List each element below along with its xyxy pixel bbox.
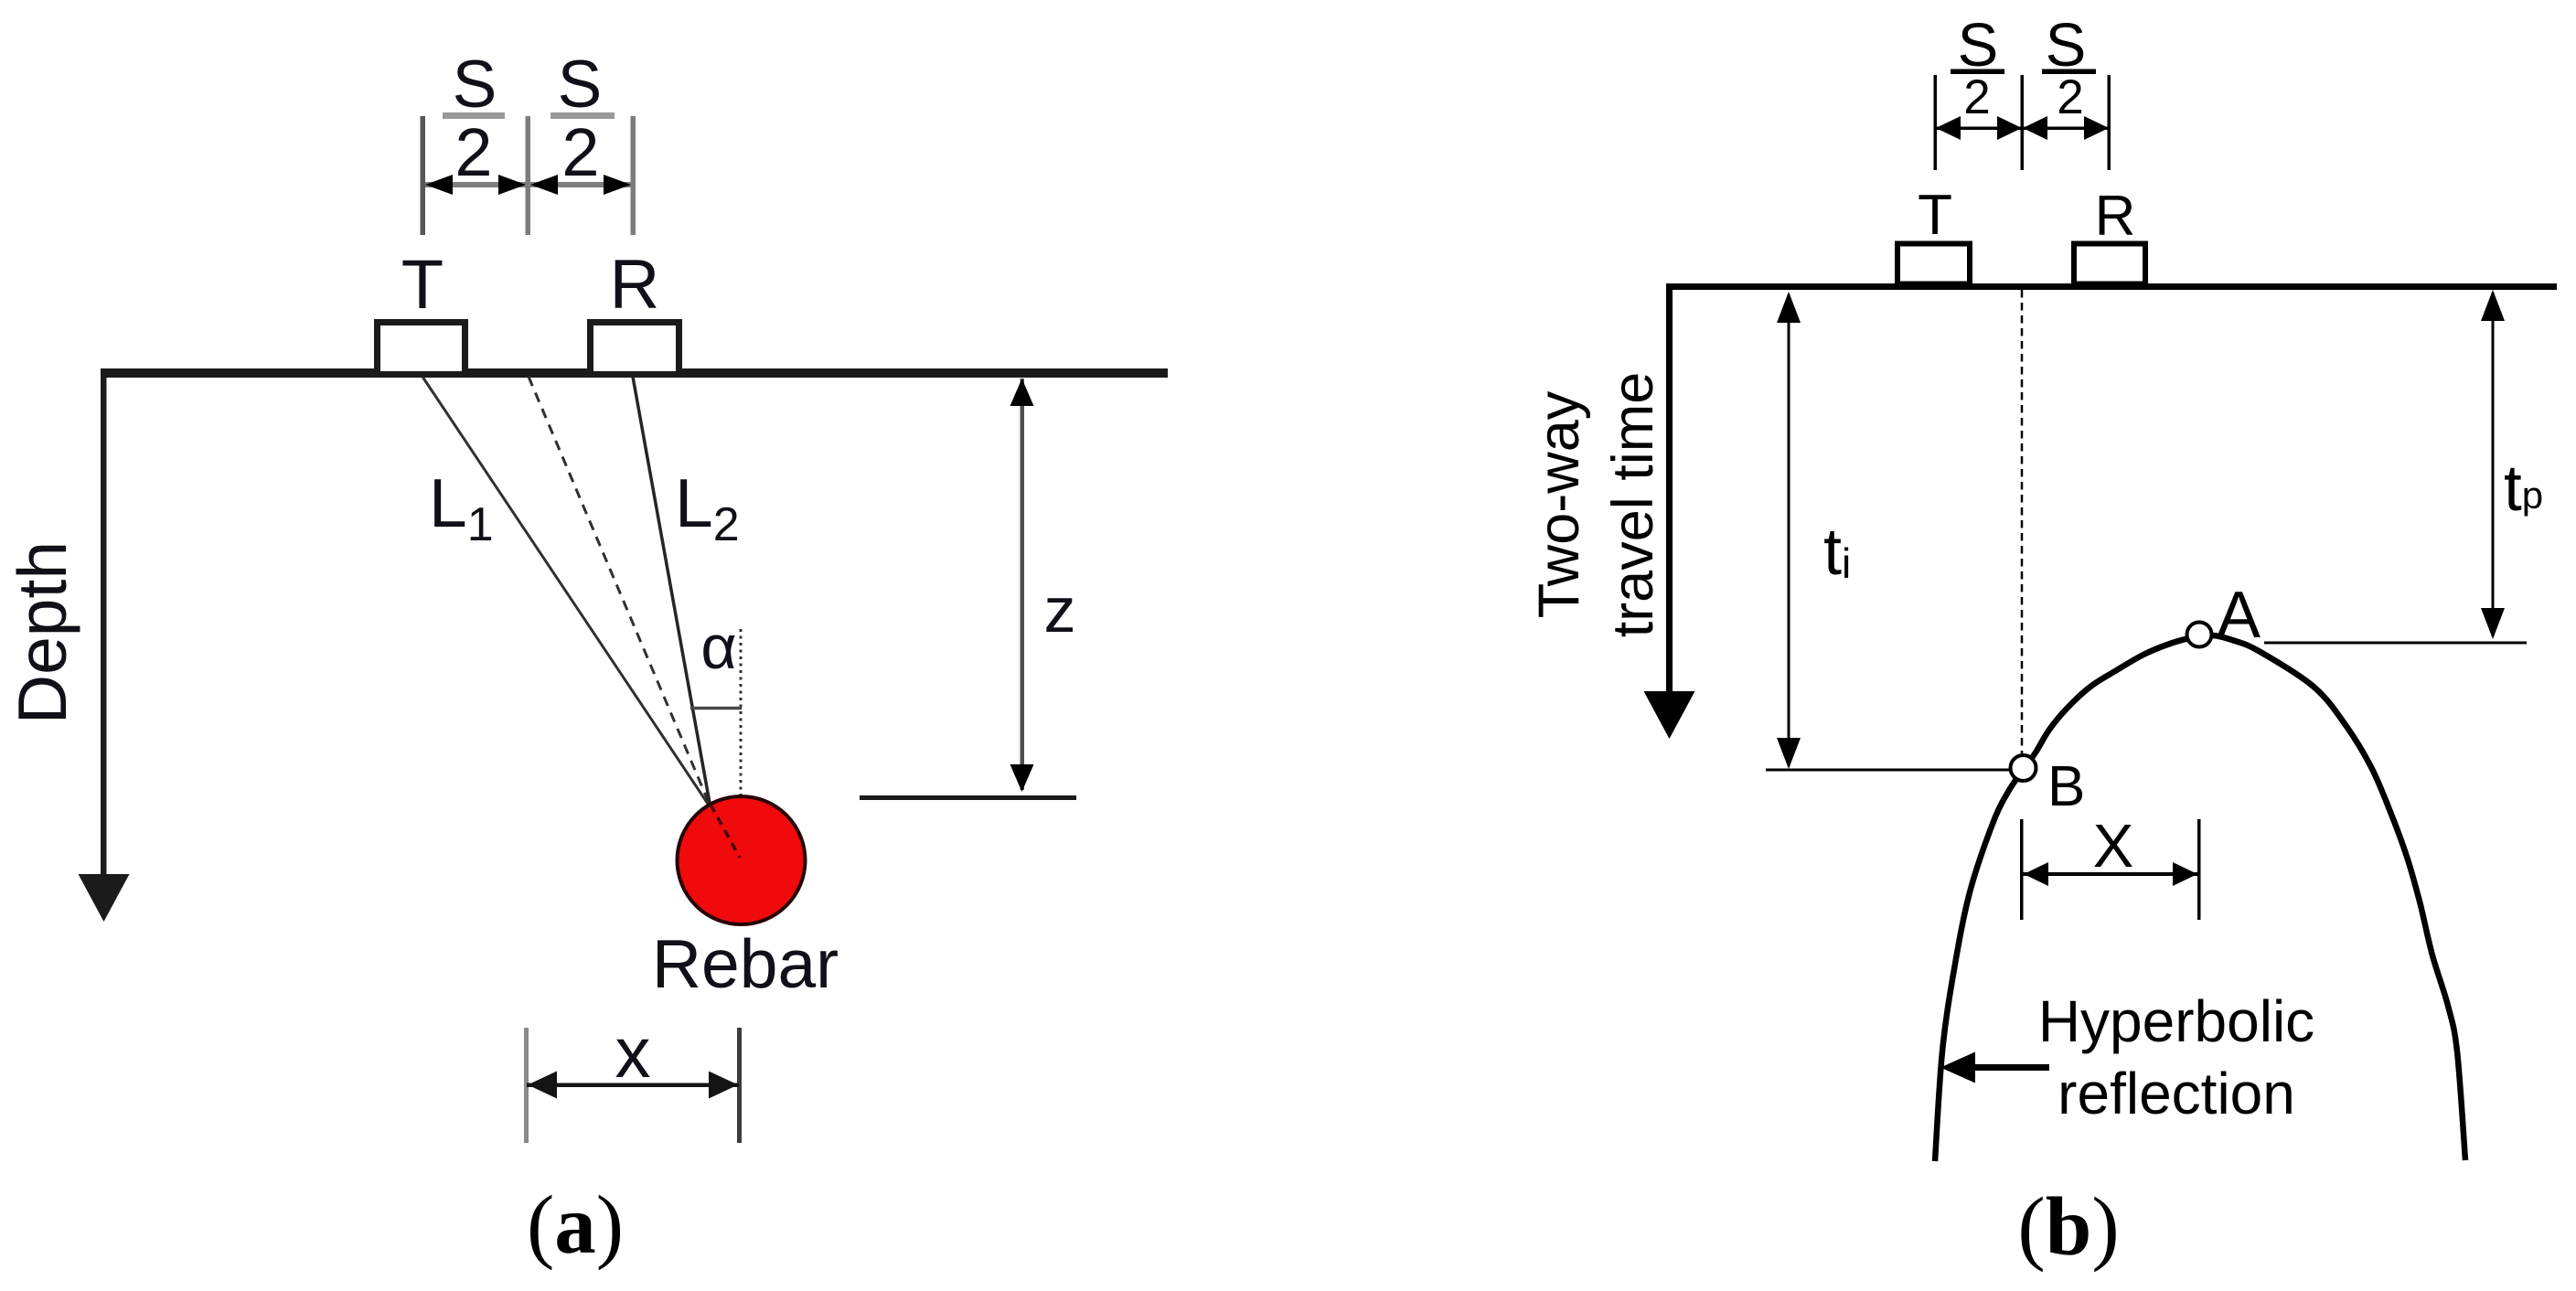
tp arrowhead top <box>2481 290 2505 321</box>
svg-text:Depth: Depth <box>4 541 80 724</box>
hyperbolic reflection curve <box>1935 635 2465 1161</box>
svg-text:B: B <box>2047 755 2085 818</box>
ti arrowhead bottom <box>1777 738 1801 769</box>
x dimension shaft <box>527 1083 739 1088</box>
time axis arrowhead <box>1644 691 1695 739</box>
transducer box T (b) <box>1897 244 1970 284</box>
x dimension tick right <box>737 1028 742 1143</box>
svg-text:α: α <box>700 613 736 682</box>
X dimension shaft <box>2023 872 2198 876</box>
svg-text:X: X <box>2093 812 2134 880</box>
ti baseline horizontal <box>1766 769 2010 772</box>
X dimension tick left (b) <box>2020 819 2024 920</box>
svg-text:(b): (b) <box>2017 1180 2119 1273</box>
svg-text:x: x <box>615 1012 651 1093</box>
dimension arrow shaft S/2 right (a) <box>530 182 631 187</box>
ray L1 from T to rebar <box>422 377 710 806</box>
dashed centre ray to rebar <box>529 377 710 805</box>
svg-text:z: z <box>1044 574 1076 645</box>
X dimension tick right (b) <box>2197 819 2201 920</box>
vertical dotted line above rebar <box>740 629 743 859</box>
time axis line (b) <box>1666 283 1673 695</box>
svg-text:R: R <box>610 246 660 324</box>
tp reference line from A <box>2264 642 2527 645</box>
ti arrowhead top <box>1777 292 1801 323</box>
svg-text:Rebar: Rebar <box>652 925 839 1002</box>
svg-text:T: T <box>1918 184 1952 247</box>
arrowheads S/2 right (a) <box>530 175 558 195</box>
svg-text:A: A <box>2217 579 2261 652</box>
point B circle <box>2011 755 2036 781</box>
tp arrowhead bottom <box>2481 608 2505 639</box>
ti measurement vertical line <box>1788 294 1790 766</box>
dimension tick left (a) <box>421 116 426 235</box>
X arrowheads <box>2024 862 2048 886</box>
svg-text:(a): (a) <box>527 1179 624 1271</box>
dimension tick right (a) <box>631 116 636 235</box>
dimension tick left (b) <box>1934 75 1938 170</box>
transducer box T (a) <box>378 323 465 375</box>
svg-text:R: R <box>2095 185 2136 248</box>
transducer box R (b) <box>2074 244 2145 284</box>
svg-text:2: 2 <box>2057 70 2083 124</box>
svg-text:2: 2 <box>561 114 599 190</box>
point A circle <box>2187 623 2212 647</box>
svg-text:2: 2 <box>1963 70 1990 124</box>
x arrowheads <box>528 1072 557 1099</box>
dimension tick middle (b) <box>2021 75 2025 170</box>
ray L2 from R to rebar <box>633 377 710 803</box>
dimension tick middle (a) <box>526 116 531 235</box>
z reference line at rebar depth <box>860 795 1076 800</box>
transducer box R (a) <box>591 323 679 375</box>
depth axis line <box>101 370 107 875</box>
dimension tick right (b) <box>2108 75 2111 170</box>
angle base segment <box>690 707 742 710</box>
dimension arrow shaft S/2 left (a) <box>425 182 526 187</box>
z arrowhead bottom <box>1010 764 1034 792</box>
z arrowhead top <box>1010 379 1034 406</box>
tp measurement vertical line <box>2492 293 2495 636</box>
dashed segment inside rebar <box>711 805 740 858</box>
surface line (b) <box>1666 283 2557 290</box>
rebar circle <box>678 796 806 924</box>
depth axis arrowhead <box>79 874 130 922</box>
x dimension tick left <box>524 1028 529 1143</box>
surface line (a) <box>101 368 1168 378</box>
arrow pointing to left branch of hyperbola <box>1966 1064 2049 1071</box>
dimension arrow shaft S/2 right (b) <box>2023 127 2109 131</box>
svg-text:T: T <box>401 246 444 324</box>
z dimension line <box>1021 379 1025 790</box>
dimension arrow shaft S/2 left (b) <box>1936 127 2022 131</box>
dotted vertical centreline (b) <box>2021 290 2024 753</box>
svg-text:S: S <box>558 48 603 122</box>
svg-text:S: S <box>453 48 497 122</box>
svg-text:2: 2 <box>454 114 492 190</box>
arrowheads S/2 left (a) <box>425 175 453 195</box>
